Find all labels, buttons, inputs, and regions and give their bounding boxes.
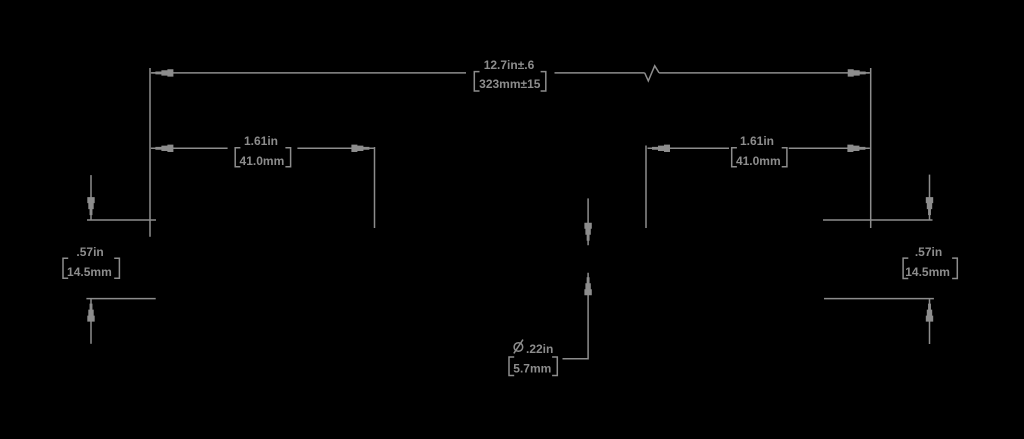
extension line right .57in top — [823, 219, 933, 221]
svg-text:14.5mm: 14.5mm — [905, 265, 950, 279]
extension line left .57in bottom — [86, 298, 155, 300]
arrowhead 1.61in left dim, left end — [151, 145, 174, 152]
dimension line 1.61in right: segment a — [649, 147, 729, 149]
bracket ] for right 14.5mm — [952, 258, 957, 278]
arrowhead right .57in down — [926, 197, 933, 220]
bracket ] for left 41.0mm — [285, 148, 290, 167]
arrowhead hole dim down — [584, 223, 591, 246]
arrowhead 1.61in right dim, left end — [648, 145, 671, 152]
dimension line 1.61in left: segment b — [297, 147, 372, 149]
arrowhead 12.7in left — [151, 69, 174, 76]
svg-text:41.0mm: 41.0mm — [240, 154, 285, 168]
dimension line 1.61in left: segment a — [152, 147, 228, 149]
leader line right .57in lower arrow shaft — [929, 320, 931, 345]
bracket ] for 5.7mm — [552, 357, 557, 376]
extension line x=646 (right slot) — [645, 146, 647, 229]
svg-text:41.0mm: 41.0mm — [736, 154, 781, 168]
leader line right .57in upper arrow shaft — [929, 175, 931, 200]
arrowhead 1.61in right dim, right end — [847, 145, 870, 152]
extension line right .57in bottom — [824, 298, 934, 300]
arrowhead 1.61in left dim, right end — [351, 145, 374, 152]
arrowhead left .57in down — [87, 197, 94, 220]
svg-text:5.7mm: 5.7mm — [513, 362, 551, 376]
extension line x=374.5 (left slot) — [374, 147, 376, 228]
bracket [ for right 14.5mm — [903, 258, 908, 278]
dimension line 12.7in left segment — [152, 72, 466, 74]
svg-text:1.61in: 1.61in — [740, 134, 774, 148]
bracket ] for 323mm — [541, 72, 546, 91]
svg-text:323mm±15: 323mm±15 — [479, 77, 541, 91]
bracket [ for left 41.0mm — [235, 148, 240, 167]
dimension line 1.61in right: segment b — [789, 147, 869, 149]
arrowhead 12.7in right — [848, 69, 871, 76]
extension line left .57in top — [87, 219, 156, 221]
arrowhead right .57in up — [926, 299, 933, 322]
leader line hole dimension lower shaft and elbow — [563, 294, 589, 359]
leader line left .57in upper arrow shaft — [90, 175, 92, 199]
svg-text:.22in: .22in — [526, 342, 553, 356]
svg-text:1.61in: 1.61in — [244, 134, 278, 148]
leader line left .57in lower arrow shaft — [90, 320, 92, 344]
bracket [ for 5.7mm — [509, 357, 514, 376]
leader line hole dimension upper shaft — [587, 198, 589, 224]
bracket [ for 323mm — [474, 72, 479, 91]
extension line left (overall width, x=150) — [149, 68, 151, 237]
bracket [ for left 14.5mm — [63, 258, 68, 278]
diameter symbol for hole callout — [514, 340, 523, 354]
svg-text:.57in: .57in — [915, 245, 942, 259]
svg-text:.57in: .57in — [76, 245, 103, 259]
bracket [ for right 41.0mm — [732, 148, 737, 167]
svg-text:12.7in±.6: 12.7in±.6 — [484, 58, 535, 72]
dimension line 12.7in right segment — [659, 72, 869, 74]
bracket ] for right 41.0mm — [782, 148, 787, 167]
extension line right (overall width, x=870.7) — [870, 68, 872, 228]
break symbol (zigzag) on 12.7in dimension — [645, 66, 659, 81]
svg-text:14.5mm: 14.5mm — [67, 265, 112, 279]
bracket ] for left 14.5mm — [114, 258, 119, 278]
arrowhead hole dim up — [584, 273, 591, 296]
dimension line 12.7in middle segment — [555, 72, 645, 74]
arrowhead left .57in up — [87, 299, 94, 322]
